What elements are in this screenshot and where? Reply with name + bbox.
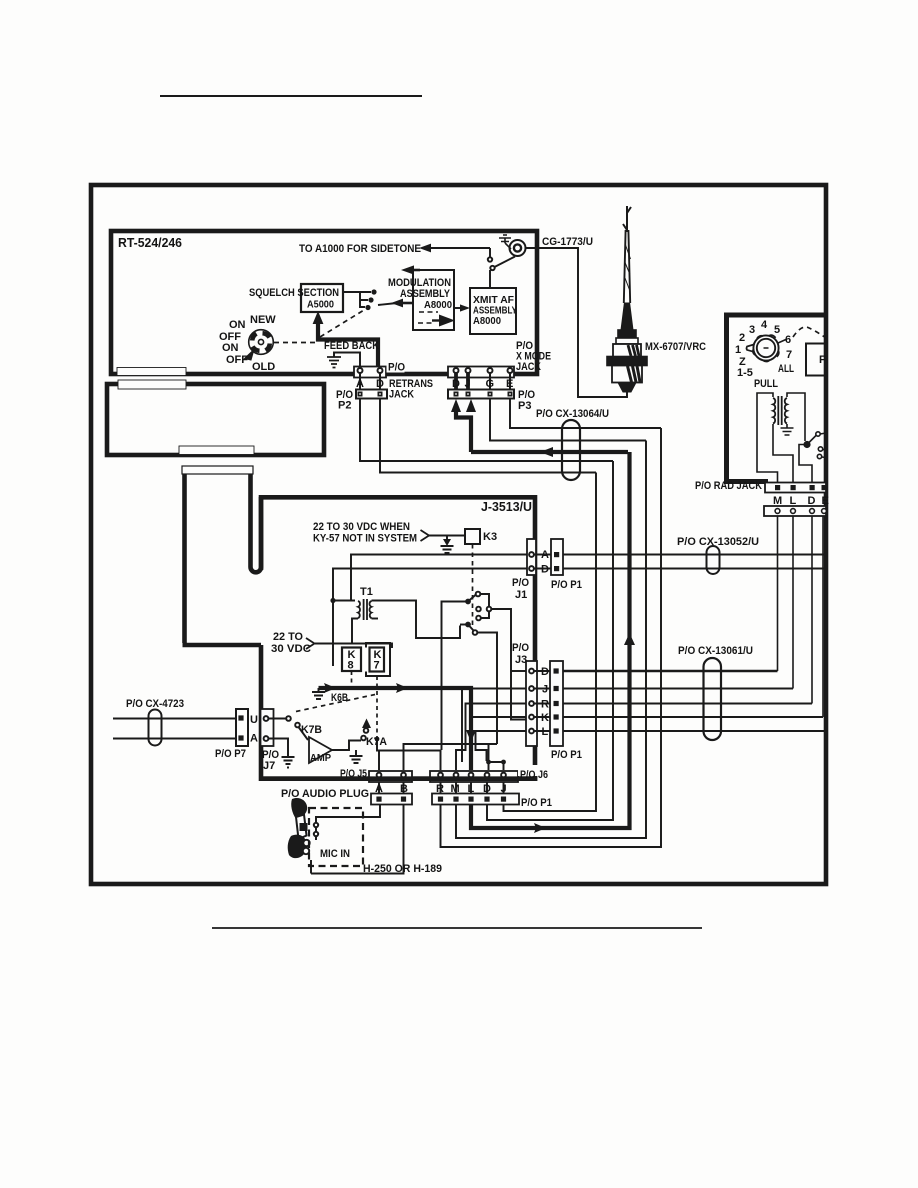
svg-text:F: F [819,354,826,366]
svg-text:ON: ON [222,342,239,354]
switch arm to modulation assembly arrow [378,303,397,305]
svg-text:P/O: P/O [512,642,529,654]
F (freq) box clipped by frame [806,344,826,376]
wire P2 D down and right [380,399,596,473]
svg-text:TO A1000 FOR SIDETONE: TO A1000 FOR SIDETONE [299,243,421,255]
cable marker P/O CX-4723 [149,710,162,746]
svg-text:P2: P2 [338,400,351,412]
J3-P1 line L to frame [563,730,826,732]
relay contact set upper (to J1/J3) [465,599,471,605]
wire primary top to rad jack M [757,393,778,483]
svg-text:4: 4 [761,319,768,331]
arrow into squelch switch from modulation assembly [398,302,413,305]
J3 pin wires into box [511,670,526,672]
antenna collar blocks [618,330,636,338]
P/O P3 connector [448,390,514,399]
jack pins A D (retrans) [358,368,363,373]
wire T1 secondary bottom to VDC rail [372,618,379,620]
ground stub on K3 line [441,536,454,553]
dashed sub-block inside modulation assembly [418,312,438,323]
svg-text:P/O CX-13064/U: P/O CX-13064/U [536,408,609,420]
title rule top [160,95,422,97]
squelch switch contact dots [365,289,376,310]
svg-text:OFF: OFF [226,354,248,366]
J3-P1 line K to rad jack E [563,716,823,718]
channel selector dial [747,335,779,361]
T1 junction dot [330,598,335,603]
antenna base tip [618,383,636,393]
K3 relay box [465,529,480,544]
wire switch pole to rad jack D [799,444,812,483]
svg-text:8: 8 [348,660,354,672]
J3 connector on box edge [526,661,537,746]
svg-text:D: D [541,666,549,678]
bottom labels [281,769,552,875]
cable run labels [536,408,759,657]
panel selector switch pole and contacts [804,442,810,448]
svg-text:K7B: K7B [301,724,322,736]
white patch for P/O label on edge [387,361,405,373]
svg-text:1: 1 [735,344,741,356]
svg-text:JACK: JACK [389,389,414,401]
P1 connector (mates J3) [550,661,563,746]
K7 relay box (double border) [366,643,390,676]
svg-text:P/O P7: P/O P7 [215,748,246,760]
pin stems jack to P2/P3 [360,373,510,391]
svg-text:22 TO: 22 TO [273,631,303,643]
dashed actuator K3 down to relay contacts [472,544,474,626]
wire P3 E down and right [510,398,661,428]
svg-text:L: L [790,495,797,507]
svg-text:30 VDC: 30 VDC [271,643,311,655]
svg-text:L: L [468,783,475,795]
arrow out of modulation assembly top-left [413,269,420,272]
svg-text:AMP: AMP [310,753,331,764]
ground on AMP output [350,750,363,763]
wire CG connector to antenna [526,248,628,397]
XMIT AF assembly A8000 box [470,288,516,334]
chassis mount box (empty) [107,384,324,455]
wire P3 G down and right [490,398,646,441]
K8 relay box [342,648,361,672]
dashed linkage K6B to K7B [296,695,375,712]
cable channel left wall [182,474,187,643]
svg-text:7: 7 [374,660,380,672]
svg-text:6: 6 [785,334,791,346]
svg-text:K3: K3 [483,531,497,543]
wire primary bottom to rad jack L [773,424,793,483]
ground hook on retrans A pin [334,353,360,368]
squelch section A5000 box [301,284,343,312]
wire P2 A down and right [360,399,613,461]
J1 A wire from pin to T1 drop [351,555,527,602]
J3 to P1 pin stubs [534,671,550,731]
svg-text:1-5: 1-5 [737,367,753,379]
svg-text:KY-57 NOT IN SYSTEM: KY-57 NOT IN SYSTEM [313,533,417,545]
stubs J6 to P1 [441,782,504,794]
cable marker P/O CX-13064/U [562,420,580,480]
svg-text:P/O: P/O [388,362,405,374]
svg-text:J3: J3 [515,654,527,666]
J-box labels [126,499,582,780]
svg-text:D: D [483,783,491,795]
svg-text:5: 5 [774,324,780,336]
svg-text:P/O CX-4723: P/O CX-4723 [126,698,184,710]
control panel enclosure (clipped at frame) [727,315,827,480]
cable channel inner wall with U-turn [251,474,262,572]
cable channel top bar [182,466,253,474]
junction dots lower right mesh [486,760,491,765]
modulation assembly A8000 box [413,270,454,330]
svg-text:3: 3 [749,324,755,336]
J3-P1 line R to rad jack D [563,703,812,705]
wire T1 secondary top right and down [372,601,461,639]
J1 to P1 pin stubs [534,555,551,569]
svg-text:H-250 OR H-189: H-250 OR H-189 [363,863,442,875]
antenna flange (wide black) [607,357,647,366]
arrow from dashed block to XMIT (thick) [432,319,440,321]
AMP output wire to K7A [332,741,361,751]
label patch P/O J6 [518,765,552,776]
antenna taper cone [621,303,633,330]
P/O RAD JACK connector bar [765,483,826,493]
svg-text:ASSEMBLY: ASSEMBLY [400,288,451,300]
svg-text:FEED BACK: FEED BACK [324,340,379,352]
svg-text:P3: P3 [518,400,531,412]
svg-text:RT-524/246: RT-524/246 [118,235,182,250]
svg-text:A: A [356,378,364,390]
antenna whip (tapering) [624,230,630,303]
retrans jack labels [336,340,551,412]
J3-P1 line J to rad jack L [563,688,793,690]
svg-text:K7A: K7A [366,736,387,748]
svg-text:P/O CX-13061/U: P/O CX-13061/U [678,645,753,657]
svg-text:T1: T1 [360,586,373,598]
svg-text:U: U [250,714,258,726]
wire audio plug A to handset [316,805,380,840]
svg-text:ON: ON [229,319,246,331]
CX-4723 pair from left [113,719,236,739]
rotary switch NEW/OLD (pinwheel) [245,330,274,360]
transformer secondary coil [785,398,787,423]
thick retrans audio line to right (left arrow) [471,450,628,454]
svg-text:P/O P1: P/O P1 [551,749,582,761]
svg-text:P/O P1: P/O P1 [521,797,552,809]
cable marker P/O CX-13052/U [707,546,720,574]
svg-text:JACK: JACK [516,361,541,373]
wire switch to XMIT AF top [489,270,491,288]
J7 A wire to ground [269,739,289,758]
svg-text:E: E [506,378,513,390]
svg-text:A5000: A5000 [307,300,334,311]
K6B thick bus with arrows [319,688,472,770]
A/D long lines to right frame [563,554,826,556]
mic in dashed box [309,808,363,866]
ground on K6B bus [312,688,325,699]
svg-text:P/O J6: P/O J6 [520,769,548,781]
svg-text:SQUELCH SECTION: SQUELCH SECTION [249,287,339,299]
ground under secondary [781,424,794,435]
svg-text:B: B [400,783,408,795]
svg-text:2: 2 [739,332,745,344]
notch on RT bottom edge (cable feedthrough) [117,368,186,376]
svg-text:A8000: A8000 [424,300,452,311]
feedback path: thick wire from retrans D pin up-left to squelch [318,323,378,368]
wires rad jack down to J3 P1 lines [777,516,779,671]
svg-text:K: K [541,712,549,724]
wire squelch output to switch contacts [343,292,371,308]
relay contact set lower [465,622,471,628]
P1 connector (mates J1) [551,539,563,575]
svg-text:D: D [452,378,460,390]
svg-text:P/O AUDIO PLUG: P/O AUDIO PLUG [281,788,369,800]
svg-text:D: D [808,495,816,507]
arrow modulation assembly to XMIT AF [454,307,462,309]
svg-text:G: G [486,378,495,390]
dashed actuator K8 down to K6B bus [351,671,353,687]
wire P1 R to X-mode E (via x661) [441,428,662,847]
wire secondary top to switch pole [787,393,805,441]
svg-text:ASSEMBLY: ASSEMBLY [473,306,517,317]
svg-text:P/O P1: P/O P1 [551,579,582,591]
outer border frame [91,185,826,884]
wire K3 to VDC label with arrow [429,535,465,537]
caption rule bottom [212,927,702,929]
22-30 VDC feed arrow and rail [306,638,315,649]
svg-text:NEW: NEW [250,314,276,326]
J7 connector on box edge [261,709,274,746]
svg-text:CG-1773/U: CG-1773/U [542,236,593,248]
svg-text:MX-6707/VRC: MX-6707/VRC [645,341,706,353]
K7B switch and wires [269,718,287,720]
panel labels [695,319,829,507]
wire P1 J to retrans D (via x596) [504,473,597,812]
thick retrans loop P3 D-J with up arrows [456,410,471,452]
svg-text:E: E [822,495,829,507]
lower jack strip M L D E [764,506,826,516]
svg-text:22 TO 30 VDC WHEN: 22 TO 30 VDC WHEN [313,521,410,533]
P1 connector bar (bottom) [432,794,519,805]
dashed arc from 6 to F box [793,327,826,338]
P/O P2 connector [356,390,387,399]
RT box text labels [118,235,593,373]
wire P1 D to retrans A (via x613) [487,461,613,820]
jack pins D J G E (X mode) [454,368,459,373]
svg-text:ALL: ALL [778,363,794,375]
K7A junction dot and wires to J5/J6 [375,737,380,742]
svg-text:OLD: OLD [252,361,275,373]
J-3513/U enclosure outline [259,495,537,781]
P7 connector [236,709,248,746]
svg-text:A: A [541,549,549,561]
svg-text:K6B: K6B [331,692,348,704]
svg-text:A: A [375,783,383,795]
notch on chassis top edge [118,380,186,389]
svg-text:J-3513/U: J-3513/U [481,499,532,514]
ground under J7 A [282,757,295,768]
J-box right edge segment below patch [533,776,538,781]
T1 transformer [333,599,355,601]
antenna lower body [612,366,642,383]
svg-text:L: L [542,726,549,738]
svg-text:P/O: P/O [512,577,529,589]
antenna whip tip [623,206,631,232]
dial pointer line to 6 [778,339,787,343]
X mode jack bar [448,367,514,378]
svg-text:J1: J1 [515,589,527,601]
J1 connector on box edge [527,539,536,575]
audio plug connector bar [371,794,412,805]
svg-text:XMIT AF: XMIT AF [473,295,514,306]
svg-text:J: J [542,684,548,696]
svg-text:PULL: PULL [754,378,778,390]
wire P1 M to X-mode G (via x646) [456,441,646,839]
svg-text:D: D [376,378,384,390]
J-box bottom edge over connectors [259,776,537,781]
dashed link rotary switch to feedback corner [274,310,364,343]
wire T1 primary bottom to VDC rail [352,619,358,645]
svg-text:A8000: A8000 [473,316,501,327]
svg-text:P/O CX-13052/U: P/O CX-13052/U [677,536,759,548]
svg-text:MIC IN: MIC IN [320,848,350,860]
channel bottom jog to J-box [183,643,262,648]
J6 connector bar [430,771,518,782]
handset H-250 [288,798,308,858]
notch on chassis bottom edge [179,446,254,455]
svg-text:A: A [250,733,258,745]
svg-text:J7: J7 [263,760,275,772]
RT-524/246 enclosure [111,231,537,374]
AMP amplifier triangle [309,737,332,763]
J5 B wire up and right [404,744,489,770]
transformer core [778,396,781,425]
K7A switch contacts with up arrow [361,736,366,741]
svg-text:J: J [501,783,507,795]
thick audio wire P1 L up right side (arrow) [471,452,630,828]
wire audio plug B to handset mic [311,805,404,874]
J1 D wire from pin to T1 drop [333,569,527,667]
ground at CG connector [499,235,511,249]
sidetone switch [489,248,491,257]
svg-text:7: 7 [786,349,792,361]
stubs J5 to audio plug [379,782,404,794]
svg-text:J: J [465,378,471,390]
antenna connector CG-1773/U (circle) [510,240,526,256]
svg-text:R: R [436,783,444,795]
svg-text:D: D [541,564,549,576]
svg-text:M: M [773,495,782,507]
svg-text:R: R [541,699,549,711]
antenna upper body with streaks [613,344,641,357]
J3-P1 line D to rad jack M [563,670,778,673]
cable marker P/O CX-13061/U [704,658,722,740]
transformer in panel: primary coil [773,398,775,423]
svg-text:P/O RAD JACK: P/O RAD JACK [695,480,762,492]
dashed actuator K7 down to K7A [376,676,378,738]
svg-text:M: M [451,783,460,795]
sidetone line with arrow [428,247,490,249]
J5 connector bar [369,771,412,782]
retrans jack bar [354,367,386,378]
